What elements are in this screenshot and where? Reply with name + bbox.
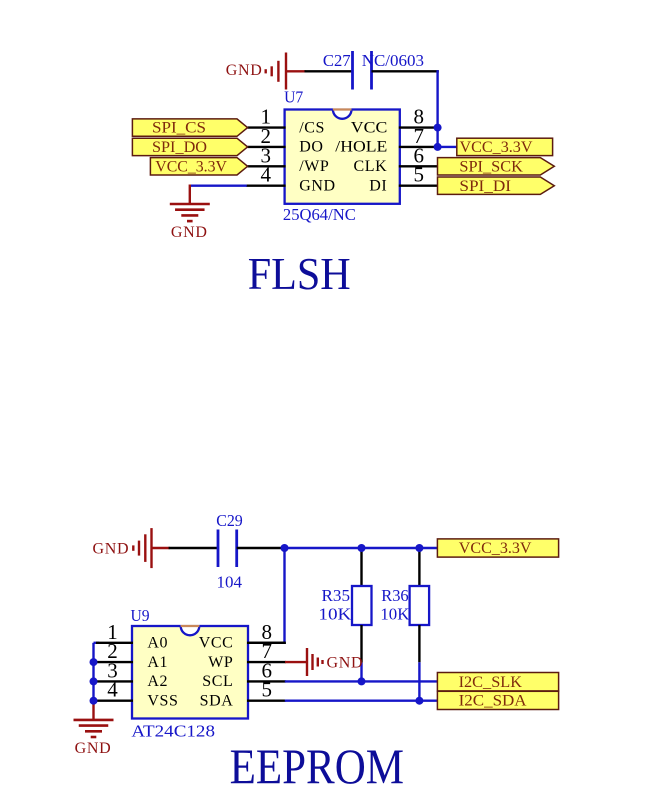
svg-text:DI: DI — [369, 178, 387, 195]
svg-text:U9: U9 — [131, 606, 150, 625]
svg-text:/HOLE: /HOLE — [335, 139, 387, 156]
svg-text:5: 5 — [262, 678, 273, 702]
svg-text:NC/0603: NC/0603 — [362, 51, 424, 70]
svg-text:R36: R36 — [381, 586, 409, 605]
svg-text:VCC_3.3V: VCC_3.3V — [155, 158, 227, 175]
svg-text:VCC_3.3V: VCC_3.3V — [459, 540, 532, 557]
svg-text:A0: A0 — [147, 635, 168, 652]
svg-text:10K: 10K — [380, 604, 410, 623]
svg-text:SDA: SDA — [200, 693, 234, 710]
svg-text:/CS: /CS — [299, 119, 325, 136]
svg-text:SPI_SCK: SPI_SCK — [459, 158, 523, 175]
svg-text:C29: C29 — [216, 511, 243, 530]
svg-text:GND: GND — [226, 62, 263, 79]
svg-text:DO: DO — [299, 139, 323, 156]
svg-text:GND: GND — [93, 540, 130, 557]
svg-text:R35: R35 — [322, 586, 351, 605]
svg-text:25Q64/NC: 25Q64/NC — [283, 205, 356, 224]
svg-text:4: 4 — [107, 678, 118, 702]
svg-text:CLK: CLK — [353, 158, 387, 175]
svg-text:U7: U7 — [284, 87, 303, 106]
svg-text:10K: 10K — [318, 604, 352, 623]
svg-text:VCC: VCC — [351, 119, 388, 136]
svg-text:C27: C27 — [323, 51, 351, 70]
svg-text:GND: GND — [299, 178, 335, 195]
svg-text:GND: GND — [327, 654, 364, 671]
svg-text:I2C_SLK: I2C_SLK — [459, 674, 523, 691]
svg-text:VCC_3.3V: VCC_3.3V — [460, 139, 533, 156]
svg-text:4: 4 — [261, 163, 272, 187]
svg-text:EEPROM: EEPROM — [230, 739, 404, 787]
svg-text:SPI_DI: SPI_DI — [459, 178, 511, 195]
svg-text:VCC: VCC — [199, 635, 234, 652]
svg-text:I2C_SDA: I2C_SDA — [459, 693, 527, 710]
svg-text:GND: GND — [75, 740, 112, 757]
svg-text:A1: A1 — [147, 654, 168, 671]
svg-text:5: 5 — [413, 163, 424, 187]
svg-text:WP: WP — [208, 654, 233, 671]
svg-text:SCL: SCL — [202, 673, 233, 690]
svg-text:104: 104 — [217, 572, 243, 591]
svg-text:SPI_CS: SPI_CS — [152, 120, 206, 137]
svg-text:VSS: VSS — [147, 693, 178, 710]
svg-text:/WP: /WP — [299, 158, 329, 175]
svg-text:GND: GND — [171, 224, 208, 241]
svg-text:AT24C128: AT24C128 — [131, 722, 215, 741]
svg-text:SPI_DO: SPI_DO — [152, 139, 207, 156]
svg-text:FLSH: FLSH — [248, 248, 351, 299]
svg-text:A2: A2 — [147, 673, 168, 690]
